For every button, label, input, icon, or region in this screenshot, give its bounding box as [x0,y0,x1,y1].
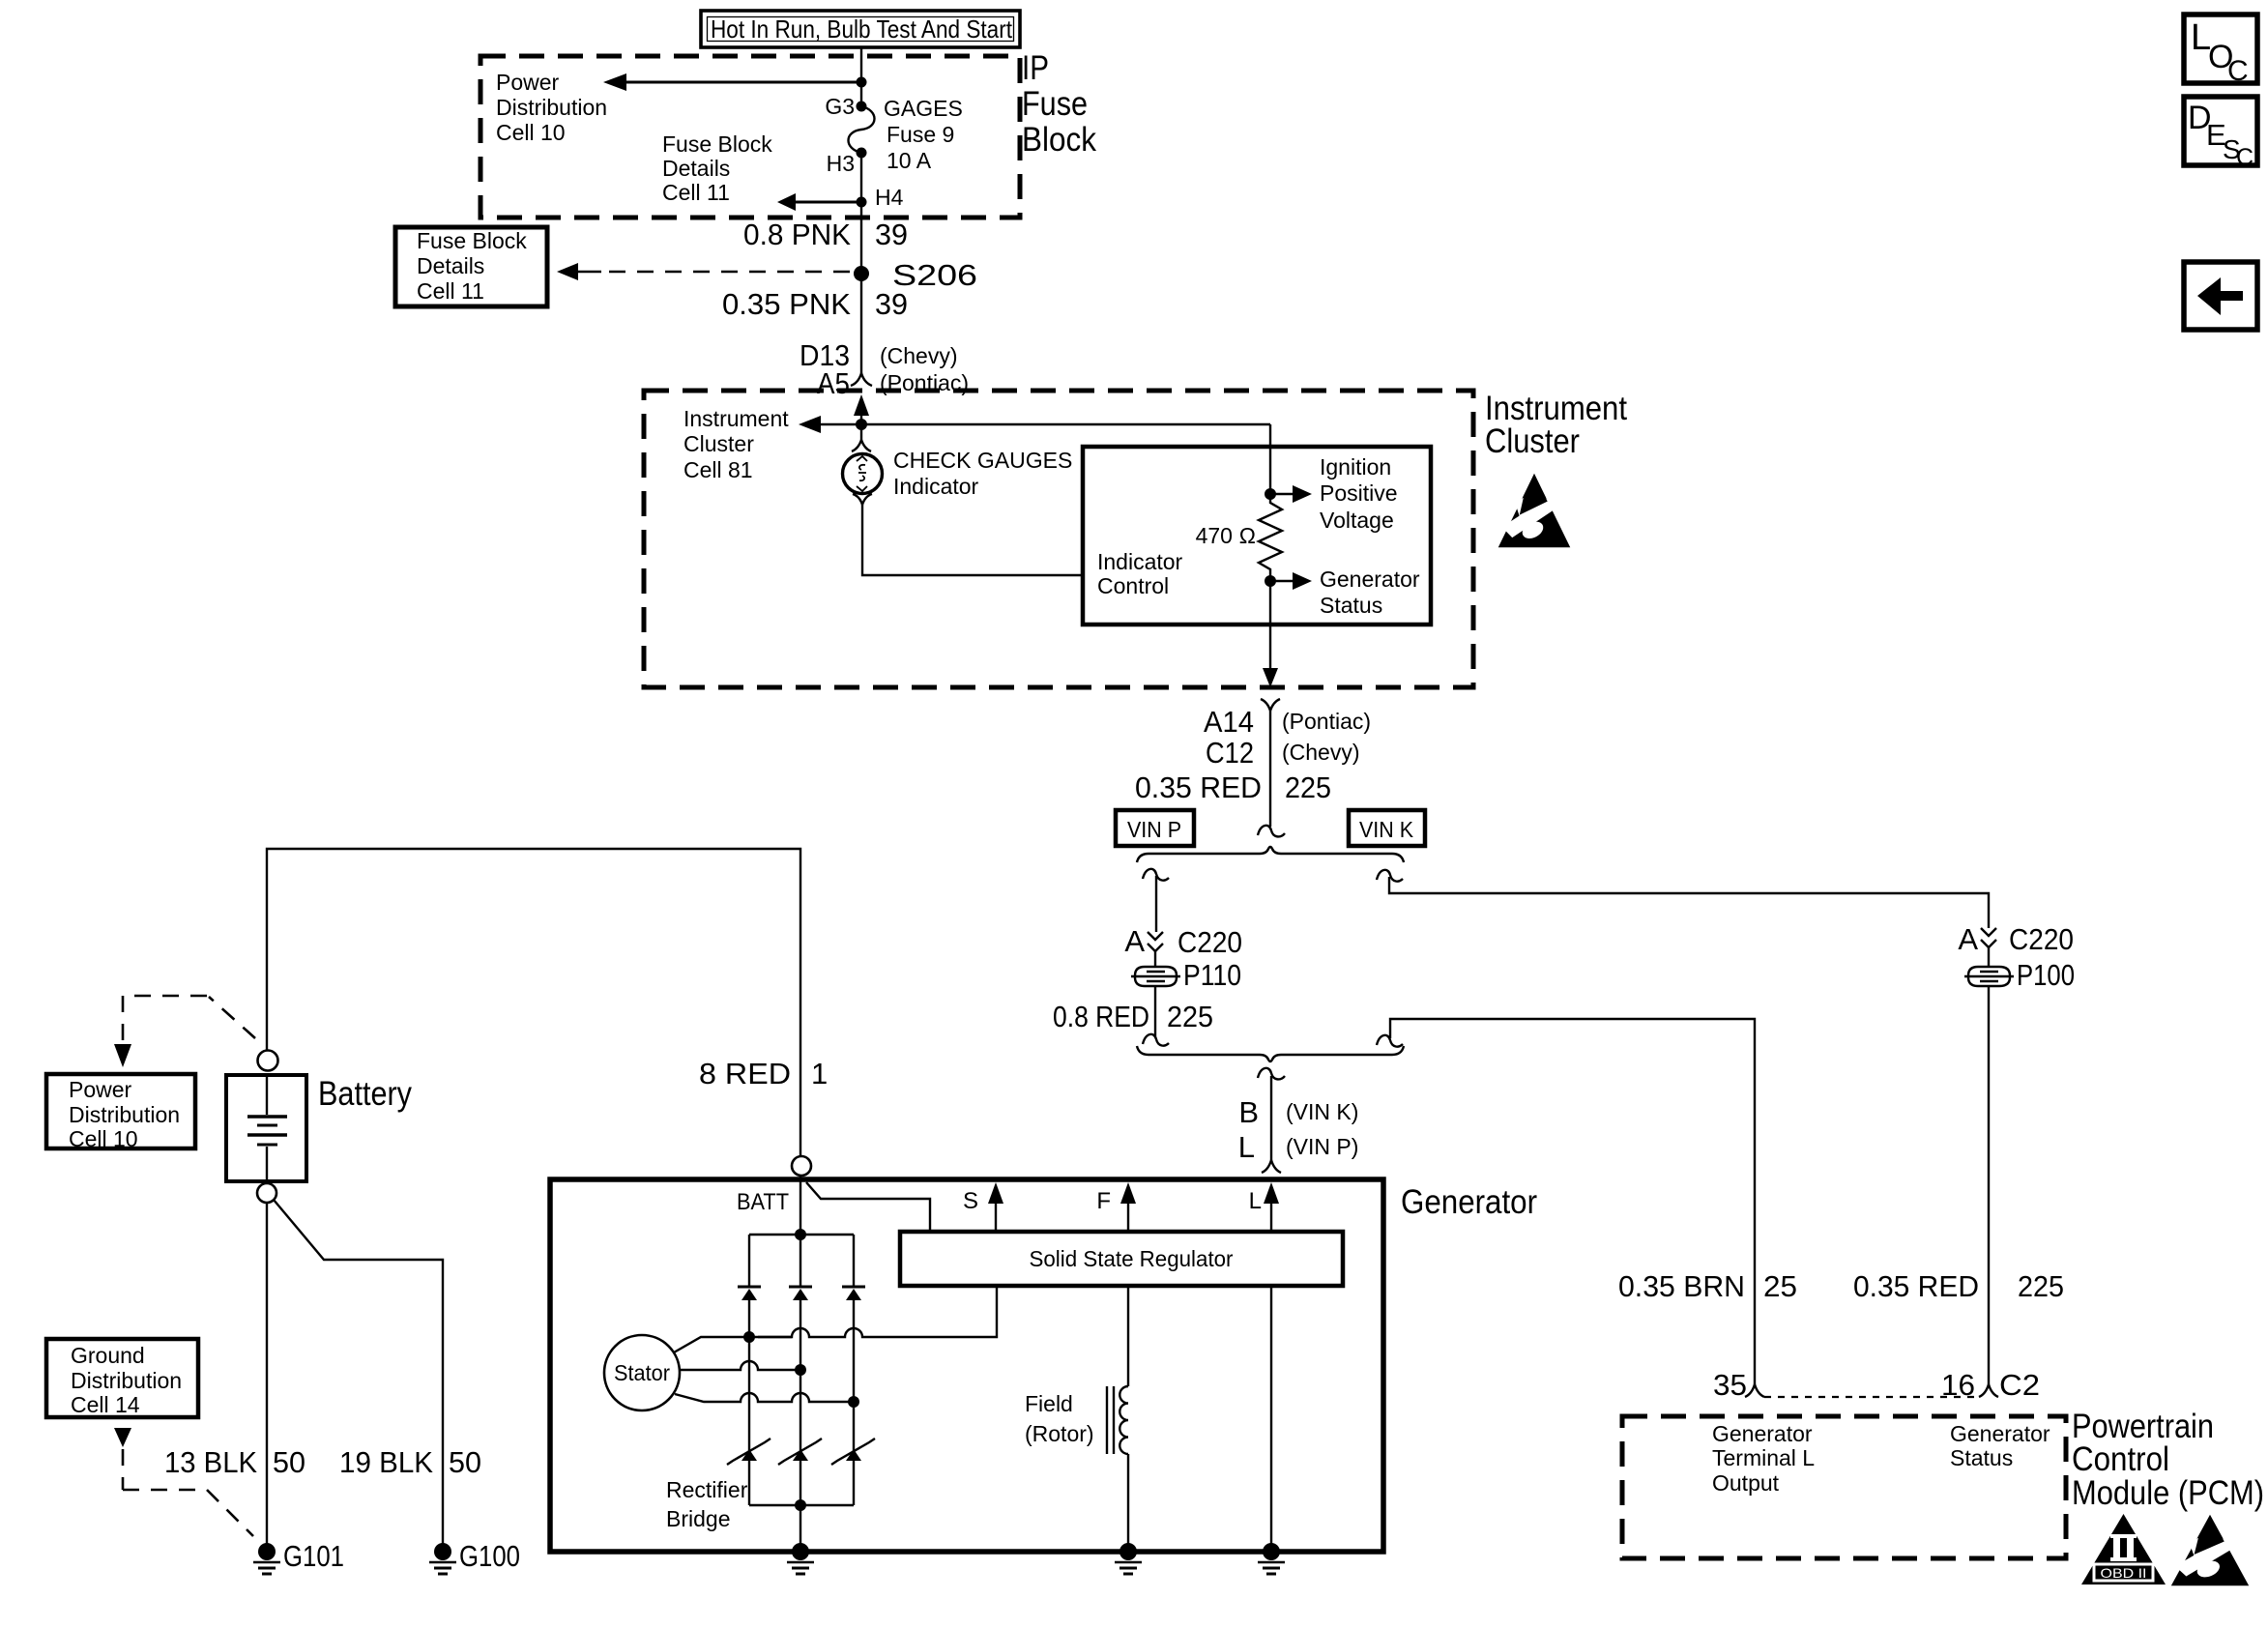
svg-text:50: 50 [273,1445,305,1479]
svg-text:Instrument: Instrument [683,406,789,431]
wire from fuse H3 down to A5 [860,153,862,373]
svg-text:19 BLK: 19 BLK [339,1445,433,1479]
svg-text:A: A [1958,922,1978,956]
ESD symbol (PCM) [2171,1515,2249,1586]
back arrow box [2184,262,2257,330]
Indicator Control box [1083,447,1431,625]
wire C220 to P100 [1988,947,1990,967]
ground generator L [1263,1543,1280,1560]
svg-text:OBD II: OBD II [2101,1565,2147,1581]
svg-text:A: A [1124,924,1145,958]
svg-text:G101: G101 [283,1539,344,1573]
rectifier bottom rail [749,1504,854,1506]
svg-text:Distribution: Distribution [69,1102,180,1127]
svg-text:Hot In Run, Bulb Test And Star: Hot In Run, Bulb Test And Start [711,15,1013,44]
svg-text:VIN K: VIN K [1359,817,1414,842]
svg-text:0.35 PNK: 0.35 PNK [722,287,851,321]
svg-text:C: C [2236,144,2253,171]
wire break curl VIN P branch [1143,869,1169,881]
junction phase 2 [795,1364,806,1376]
reference box Ground Distribution Cell 14 [46,1339,198,1417]
svg-text:Generator: Generator [1950,1421,2050,1446]
svg-text:Status: Status [1950,1445,2013,1470]
svg-text:Rectifier: Rectifier [666,1477,748,1502]
svg-text:Power: Power [496,70,560,95]
svg-text:470 Ω: 470 Ω [1196,523,1256,548]
svg-text:Field: Field [1025,1391,1073,1416]
wire to Instrument Cluster Cell 81 (arrow left) [821,423,1270,425]
dashed reference wire battery to Power Distribution [123,996,255,1040]
svg-text:0.35 RED: 0.35 RED [1853,1269,1979,1303]
svg-text:0.8 PNK: 0.8 PNK [743,218,851,251]
svg-text:Cell 81: Cell 81 [683,457,753,482]
junction phase 1 [743,1331,755,1343]
svg-text:Solid State Regulator: Solid State Regulator [1030,1246,1234,1271]
svg-text:G3: G3 [825,94,855,119]
svg-text:C2: C2 [1999,1368,2040,1402]
wire battery negative to G101 [266,1203,268,1544]
svg-text:P100: P100 [2017,958,2075,992]
rectifier top rail [749,1234,854,1236]
svg-text:Fuse: Fuse [1022,85,1088,123]
wire to Power Distribution (arrow left) [626,81,861,84]
VIN K tag box [1349,810,1425,846]
svg-text:Control: Control [2072,1440,2169,1478]
resistor 470 ohm [1259,494,1282,581]
connector C220 pin A (right) [1981,928,1996,947]
node resistor top [1265,488,1276,500]
Powertrain Control Module dashed box [1622,1416,2066,1558]
svg-text:Cell 11: Cell 11 [662,180,730,205]
junction BATT rail [795,1229,806,1240]
svg-text:Fuse Block: Fuse Block [417,228,527,253]
node G3 [857,102,867,112]
svg-text:(Rotor): (Rotor) [1025,1421,1094,1446]
wire from cluster to option split [1269,711,1271,827]
wire option split to generator L/B [1270,1076,1272,1160]
svg-text:(Chevy): (Chevy) [1282,740,1360,765]
svg-text:Voltage: Voltage [1320,508,1394,533]
svg-text:13 BLK: 13 BLK [164,1445,257,1479]
ground G101 [258,1543,276,1560]
svg-text:L: L [1249,1188,1262,1214]
svg-text:0.8 RED: 0.8 RED [1053,1000,1149,1033]
svg-text:0.35 BRN: 0.35 BRN [1618,1269,1745,1303]
connector fork at generator terminal [1262,1160,1281,1173]
svg-text:Details: Details [417,253,484,278]
diode D2 [789,1286,812,1289]
svg-text:H4: H4 [875,185,904,210]
battery B1 box [226,1075,306,1181]
arrow Generator Status (cluster) [1270,580,1294,582]
svg-text:39: 39 [875,287,908,321]
wire junction to lamp [860,424,862,440]
svg-text:C12: C12 [1206,736,1254,770]
battery cell plates [266,1075,268,1115]
fuse F9 GAGES 10A (S-curve symbol) [849,106,875,153]
svg-text:VIN P: VIN P [1127,817,1181,842]
zener Z2 [793,1449,808,1461]
svg-text:C: C [2227,55,2249,87]
svg-text:CHECK GAUGES: CHECK GAUGES [893,448,1072,473]
terminal F arrow [1120,1182,1136,1204]
svg-text:Terminal L: Terminal L [1712,1445,1815,1470]
svg-text:35: 35 [1713,1368,1747,1402]
rectifier leg 1 [748,1235,750,1505]
wire VIN K branch to P100 [1389,877,1989,928]
connector C220 pin A (left) [1148,932,1163,951]
stator phase 2 wire [680,1361,800,1370]
node H3 [857,148,867,159]
connector fork at A5 [851,373,872,386]
svg-text:BATT: BATT [737,1189,789,1215]
svg-text:Power: Power [69,1077,132,1102]
reference box Power Distribution Cell 10 [46,1074,195,1148]
svg-text:1: 1 [811,1057,828,1090]
svg-text:(Pontiac): (Pontiac) [1282,709,1371,734]
rectifier leg 2 [800,1235,801,1505]
svg-text:F: F [1096,1188,1111,1214]
ground generator field [1119,1543,1137,1560]
lamp holder fork top [852,440,871,451]
zener Z1 [741,1449,757,1461]
field rotor coil [1119,1386,1128,1454]
svg-text:Distribution: Distribution [71,1368,182,1393]
junction in cluster [856,419,867,430]
arrow up into cluster feed [860,414,862,424]
svg-text:A5: A5 [817,366,850,400]
svg-text:8 RED: 8 RED [699,1057,791,1090]
battery negative terminal [257,1183,276,1203]
wire battery sense to regulator [806,1182,930,1232]
svg-text:Cell 11: Cell 11 [417,278,484,304]
wire from lamp to Indicator Control box [862,505,1083,575]
svg-text:Ignition: Ignition [1320,454,1391,480]
svg-text:(VIN P): (VIN P) [1286,1134,1358,1159]
diode D1 [738,1286,761,1289]
ground generator case (rectifier) [792,1543,809,1560]
wire ignition voltage to resistor [1269,424,1271,494]
svg-text:GAGES: GAGES [884,96,963,121]
IP Fuse Block dashed box [480,56,1020,218]
dashed reference wire grounds to Ground Distribution [114,1428,131,1447]
ESD symbol (instrument cluster) [1498,474,1570,547]
wire C220 to P110 [1154,951,1156,967]
wire battery negative to G100 [274,1200,443,1544]
wire generator L branch to PCM 35 [1390,1019,1755,1384]
connector fork PCM pin 16 C2 [1979,1384,1998,1397]
junction phase 3 [848,1396,859,1408]
node resistor bottom [1265,575,1276,587]
svg-text:39: 39 [875,218,908,251]
svg-text:Generator: Generator [1401,1183,1537,1221]
rectifier leg 3 [853,1235,855,1505]
svg-text:G100: G100 [459,1539,520,1573]
svg-text:Positive: Positive [1320,480,1398,506]
wire rectifier to ground [800,1505,801,1545]
wire F to field coil [1127,1286,1129,1386]
battery positive terminal [258,1051,278,1071]
wire P110 down [1154,986,1156,1036]
wire out of cluster (arrow down) [1269,581,1271,669]
option split bracket lower [1137,1046,1404,1061]
terminal BATT ring [792,1156,811,1176]
wire: main vertical feed from Hot box through fuse [860,47,862,106]
dashed reference wire from S206 to Fuse Block Details box [578,271,601,273]
wire L to ground [1270,1286,1272,1545]
svg-text:225: 225 [1167,1000,1213,1033]
svg-text:(VIN K): (VIN K) [1286,1099,1358,1124]
stator circle [604,1335,680,1410]
OBD II symbol (PCM) [2081,1514,2166,1584]
wire to Fuse Block Details (arrow left) [796,201,861,204]
svg-text:P110: P110 [1183,958,1241,992]
svg-text:Block: Block [1022,121,1096,159]
diode D3 [842,1286,865,1289]
arrowhead Fuse Block Details [777,193,796,211]
svg-text:Fuse 9: Fuse 9 [887,122,954,147]
svg-text:25: 25 [1763,1269,1797,1303]
reference box Fuse Block Details Cell 11 [395,227,547,306]
svg-text:Battery: Battery [318,1075,412,1113]
svg-text:Details: Details [662,156,730,181]
svg-text:Distribution: Distribution [496,95,607,120]
Instrument Cluster dashed box [644,391,1473,687]
zener Z3 [846,1449,861,1461]
splice S206 [854,266,869,281]
svg-text:Cell 10: Cell 10 [496,120,566,145]
field rotor coil core [1107,1386,1114,1454]
svg-text:(Chevy): (Chevy) [880,343,958,368]
svg-text:Status: Status [1320,593,1382,618]
node H4 [857,197,867,208]
pass-through P110 [1131,967,1180,986]
stator phase 3 wire [675,1393,854,1402]
terminal S arrow [988,1182,1003,1204]
svg-text:225: 225 [2018,1269,2064,1303]
svg-text:Cell 14: Cell 14 [71,1392,140,1417]
svg-text:A14: A14 [1204,705,1254,739]
svg-text:Module (PCM): Module (PCM) [2072,1474,2264,1512]
svg-text:Stator: Stator [614,1360,670,1385]
svg-text:Bridge: Bridge [666,1506,730,1531]
svg-text:Cluster: Cluster [1485,422,1580,460]
svg-text:H3: H3 [827,151,855,176]
svg-text:225: 225 [1285,770,1331,804]
wire P100 to PCM 16 [1988,986,1990,1384]
svg-text:Cluster: Cluster [683,431,754,456]
VIN P tag box [1116,810,1194,846]
wire break curl above lower split left [1143,1034,1169,1046]
wire break curl VIN K branch [1377,870,1403,882]
svg-text:10 A: 10 A [887,148,932,173]
svg-text:Generator: Generator [1712,1421,1813,1446]
svg-text:L: L [1238,1130,1255,1164]
LOC reference box [2184,15,2257,83]
svg-text:50: 50 [449,1445,481,1479]
Solid State Regulator box [900,1232,1343,1286]
arrowhead Power Distribution [603,73,626,91]
ground G100 [434,1543,451,1560]
svg-text:IP: IP [1022,49,1049,87]
svg-text:C220: C220 [1178,925,1242,959]
connector fork at A14 [1261,699,1280,711]
dashed link between PCM pins [1764,1396,1979,1398]
junction at feed split [857,77,867,88]
svg-text:C220: C220 [2009,922,2074,956]
wire break curl below lower split [1258,1068,1285,1080]
stator phase 1 wire [674,1286,997,1352]
svg-text:Control: Control [1097,573,1169,598]
wire break curl above option split [1258,826,1285,837]
connector fork PCM pin 35 [1745,1384,1764,1397]
svg-text:Indicator: Indicator [1097,549,1183,574]
svg-text:S: S [963,1188,978,1214]
lamp holder fork bottom [853,494,872,505]
svg-text:0.35 RED: 0.35 RED [1135,770,1262,804]
svg-text:Fuse Block: Fuse Block [662,131,772,157]
indicator CHECK GAUGES lamp circle [843,454,883,494]
power feed box "Hot In Run, Bulb Test And Start" [701,11,1020,47]
gauge glyph inside lamp [857,456,867,491]
DESC reference box [2184,97,2257,165]
terminal L arrow [1264,1182,1279,1204]
svg-text:B: B [1238,1095,1259,1129]
wire break curl to 0.35 BRN branch [1377,1035,1403,1047]
svg-text:Ground: Ground [71,1343,145,1368]
svg-text:Output: Output [1712,1470,1780,1496]
svg-text:Indicator: Indicator [893,474,979,499]
pass-through P100 [1964,967,2014,986]
wire field coil to ground [1127,1454,1129,1545]
arrow Ignition Positive Voltage [1270,493,1294,495]
svg-text:Cell 10: Cell 10 [69,1126,138,1151]
junction bottom rail [795,1499,806,1511]
wire VIN P branch down to C220 [1155,876,1157,932]
wire BATT into rectifier [800,1176,801,1235]
svg-text:Generator: Generator [1320,567,1420,592]
wire battery positive to generator BATT [267,849,800,1156]
option split bracket upper [1137,847,1404,862]
Generator box [550,1179,1383,1552]
